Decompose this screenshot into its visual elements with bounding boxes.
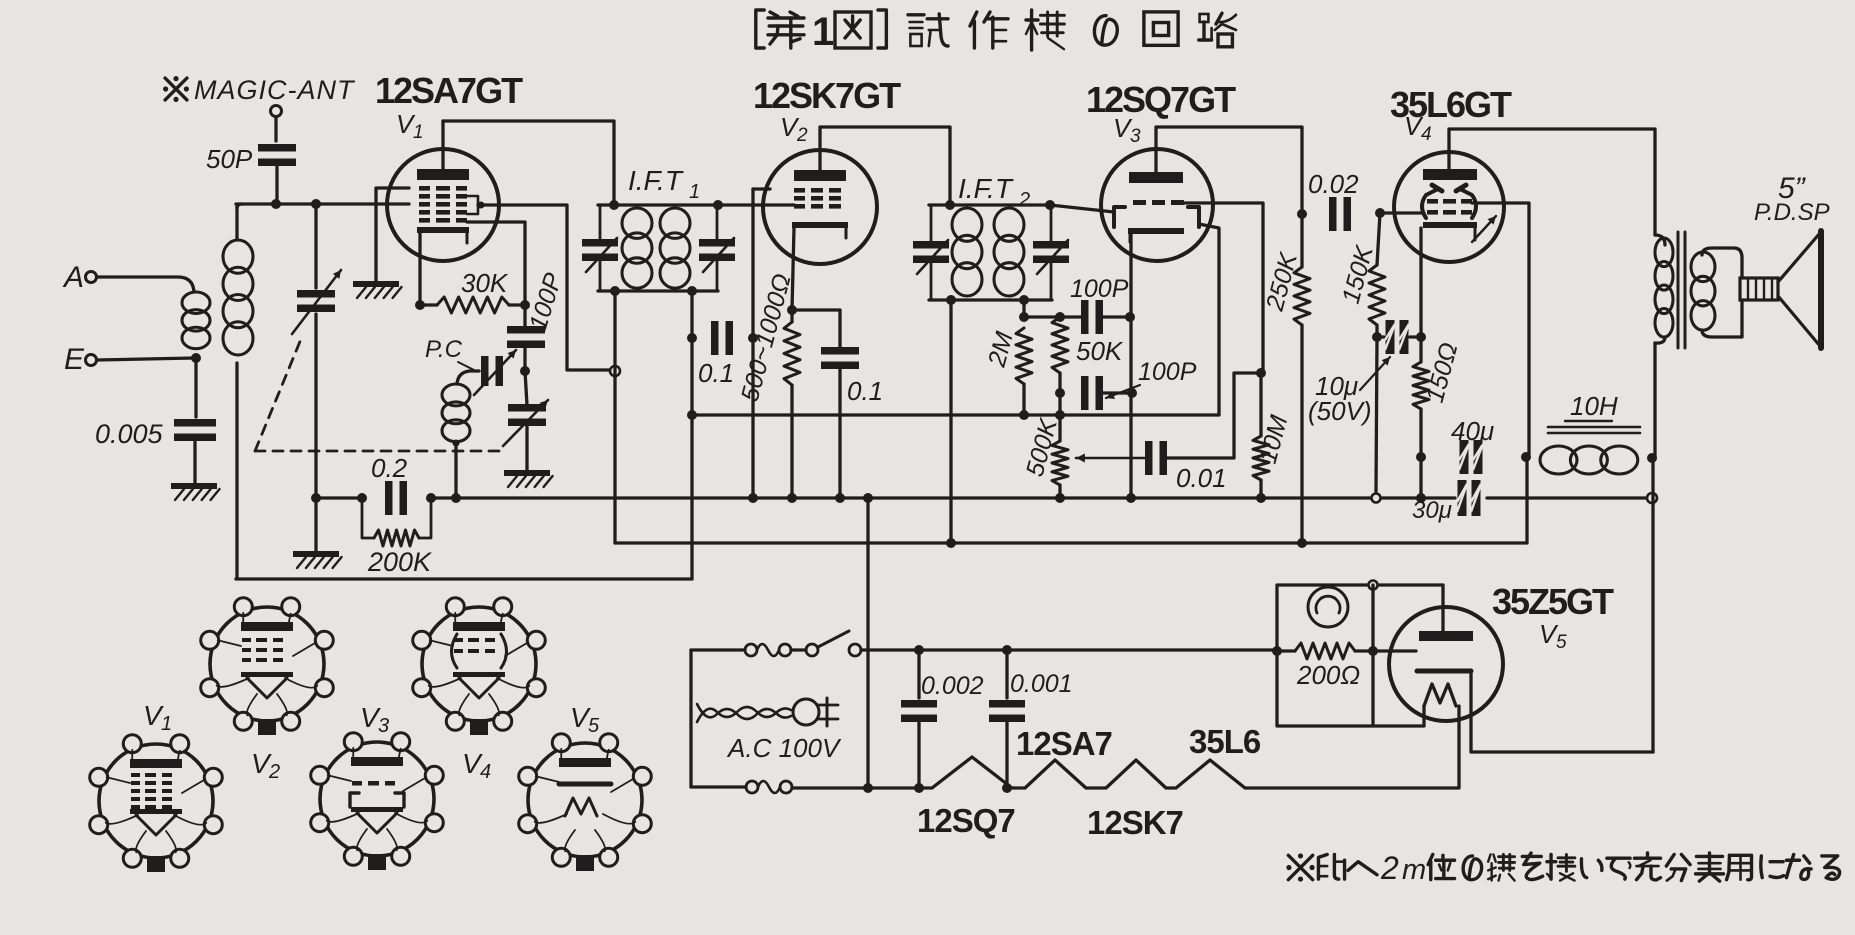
svg-text:4: 4	[480, 761, 491, 783]
node PC junction	[520, 366, 530, 376]
tube V3 cathode	[1128, 228, 1184, 242]
wire V4 screen lead	[1472, 203, 1529, 456]
node 50K top	[1055, 312, 1065, 322]
gang dashed line diagonal	[255, 339, 301, 451]
svg-text:0.02: 0.02	[1308, 169, 1359, 199]
ground V1 grid	[353, 281, 402, 298]
tube V4 35L6 envelope	[1394, 152, 1504, 262]
wire V1 plate to IFT1	[443, 121, 614, 205]
wire V1 screen to B+	[478, 205, 610, 370]
node screen bypass bus	[748, 493, 758, 503]
capacitor 40u filter	[1451, 416, 1494, 474]
svg-text:0.1: 0.1	[698, 358, 734, 388]
node IFT2 top left	[945, 200, 955, 210]
ground below tuning cap	[293, 551, 342, 568]
wire lamp box bottom	[1277, 651, 1424, 726]
node 0.001 top	[1002, 645, 1012, 655]
capacitor 100P osc grid	[507, 269, 568, 348]
resistor 500~1000ohm cathode bias	[736, 271, 800, 498]
tube V3 plate	[1129, 172, 1183, 183]
svg-text:200Ω: 200Ω	[1296, 660, 1360, 690]
label socket V5	[570, 702, 600, 737]
tube V1 cathode	[417, 227, 469, 243]
node heater line lamp left	[1272, 646, 1282, 656]
node cathode 40u	[1416, 452, 1426, 462]
socket V2 12SK7 base diagram	[201, 598, 334, 735]
wire IFT2 to V3 diode	[1050, 205, 1114, 212]
label 12SQ7 heater	[917, 802, 1015, 839]
terminal A	[62, 261, 97, 294]
svg-text:0.002: 0.002	[921, 672, 984, 700]
tube V3 grid	[1133, 200, 1184, 205]
node cathode line 100P	[1127, 388, 1137, 398]
label socket V3	[360, 702, 389, 737]
node 0.2 right	[426, 493, 436, 503]
antenna coil primary	[182, 292, 210, 349]
node cathode-30K	[415, 300, 425, 310]
node osc coil bus	[451, 493, 461, 503]
node chassis AC bus	[863, 493, 873, 503]
wire IFT1 bottom	[598, 289, 718, 292]
node 0.1 AVC right	[748, 333, 758, 343]
wire V3 cathode to bus	[1129, 317, 1132, 498]
svg-text:10H: 10H	[1570, 391, 1618, 421]
AC box left side	[689, 650, 692, 787]
node triode grid junction	[1256, 368, 1266, 378]
svg-text:40μ: 40μ	[1451, 416, 1494, 446]
resistor 200K	[362, 498, 432, 577]
wire V3 plate lead	[1156, 127, 1302, 214]
svg-text:12SQ7GT: 12SQ7GT	[1086, 79, 1236, 120]
wire V5 cathode to raw B+	[1471, 671, 1653, 752]
wire 0.01 to grid node	[1162, 373, 1263, 458]
svg-text:35Z5GT: 35Z5GT	[1492, 581, 1614, 622]
node cathode bus	[1416, 493, 1426, 503]
gang dashed line horizontal	[255, 450, 507, 453]
svg-text:30K: 30K	[461, 268, 509, 298]
tube V1 plate	[417, 169, 469, 180]
label 12SK7 heater	[1087, 804, 1183, 841]
svg-text:12SQ7: 12SQ7	[917, 802, 1015, 839]
wire IFT1 primary to B+ bus	[613, 291, 616, 543]
svg-text:0.2: 0.2	[371, 453, 408, 483]
wire coil to 0.005	[194, 358, 197, 417]
svg-text:P.C: P.C	[425, 336, 463, 363]
wire V4 plate lead	[1449, 129, 1655, 235]
output transformer core	[1678, 232, 1685, 348]
ground below 0.005	[171, 483, 220, 500]
resistor 10M grid leak	[1253, 373, 1293, 498]
svg-text:E: E	[64, 343, 85, 376]
node 0.2 left	[357, 493, 367, 503]
AC plug	[793, 698, 838, 726]
wire heater tap	[1373, 649, 1416, 652]
output transformer secondary	[1691, 248, 1742, 337]
node 50K bottom	[1055, 388, 1065, 398]
capacitor 0.1 cathode bypass	[821, 347, 883, 406]
node V3 cathode 100P	[1125, 312, 1135, 322]
label socket V2	[251, 748, 280, 783]
node 2M bottom AVC	[1019, 410, 1029, 420]
tube V4 plate	[1423, 169, 1477, 180]
node 0.02 left	[1297, 209, 1307, 219]
wire node to 100P	[523, 305, 526, 327]
wire lamp box right	[1371, 585, 1374, 726]
svg-text:50P: 50P	[206, 144, 253, 174]
node 40u right B+	[1521, 452, 1531, 462]
capacitor 10u cathode bypass	[1308, 320, 1421, 426]
wire grid to V4	[1380, 211, 1424, 214]
speaker voice coil	[1740, 278, 1778, 300]
tube V2 grids	[794, 188, 841, 209]
wire V2 plate lead	[820, 127, 950, 205]
variable capacitor tuning C1	[292, 270, 341, 334]
label 35L6 heater	[1189, 723, 1261, 760]
svg-text:1: 1	[812, 10, 834, 54]
node IFT1 bottom left	[610, 286, 620, 296]
label P.D.SP	[1754, 199, 1830, 226]
node IFT2 bottom right	[1019, 295, 1029, 305]
output transformer primary	[1655, 235, 1673, 343]
capacitor P.C padder	[425, 336, 516, 395]
volume control 500K	[1021, 393, 1068, 498]
tube V3 12SQ7 envelope	[1101, 149, 1213, 261]
wire AVC filter link	[1024, 315, 1086, 318]
antenna coil secondary	[223, 206, 253, 578]
resistor 30K	[420, 268, 525, 313]
label V1	[396, 109, 424, 143]
switch	[791, 631, 861, 656]
crossover right end of bus	[1647, 493, 1657, 503]
label 35L6GT	[1390, 84, 1512, 125]
heater string line	[792, 706, 1459, 788]
wire IFT2 primary to B+	[949, 300, 952, 543]
svg-text:12SA7: 12SA7	[1016, 725, 1112, 762]
wire V5 plate lead	[1441, 585, 1444, 631]
wire 100P to PC node	[523, 348, 526, 371]
svg-text:A: A	[62, 261, 84, 294]
svg-text:12SK7: 12SK7	[1087, 804, 1183, 841]
capacitor 0.001 line	[989, 650, 1073, 788]
resistor 50K	[1052, 317, 1124, 393]
wire bus right of 30u	[1487, 496, 1646, 499]
trimmer capacitor IFT1 secondary	[699, 205, 735, 291]
wire chassis bus main	[431, 496, 1455, 499]
socket V4 35L6 base diagram	[413, 598, 546, 735]
IFT2 primary winding	[952, 208, 982, 296]
capacitor 0.002 line	[901, 650, 984, 788]
fuse AC bottom	[691, 781, 792, 793]
svg-text:1: 1	[413, 122, 424, 143]
svg-text:100P: 100P	[1070, 275, 1129, 303]
svg-text:50K: 50K	[1076, 336, 1124, 366]
label 35Z5GT	[1492, 581, 1614, 622]
wire IFT1 to V2 grid	[718, 203, 794, 206]
fuse AC top	[691, 644, 791, 656]
node 50P junction	[271, 199, 281, 209]
tube V4 beam plates	[1422, 185, 1476, 218]
wire V3 grid lead	[1184, 203, 1263, 373]
label I.F.T1	[628, 165, 700, 203]
node 250K B+	[1297, 538, 1307, 548]
svg-text:3: 3	[378, 715, 389, 737]
resistor 250K plate load	[1260, 214, 1310, 543]
wire IFT1 top	[598, 203, 718, 206]
node 0.002 bottom	[914, 783, 924, 793]
IFT1 primary winding	[622, 208, 652, 288]
svg-text:2: 2	[1380, 850, 1399, 886]
trimmer capacitor IFT1 primary	[582, 205, 618, 291]
note ※印へ2m位の線を接いで充分実用になる	[1286, 850, 1839, 886]
trimmer capacitor IFT2 secondary	[1033, 205, 1069, 300]
tube V2 12SK7 envelope	[763, 150, 877, 264]
svg-text:2: 2	[1018, 189, 1030, 211]
label ※MAGIC-ANT	[163, 75, 356, 105]
node 10M bus	[1256, 493, 1266, 503]
node volume bus	[1055, 493, 1065, 503]
crossover screen at IFT1 primary	[610, 366, 620, 376]
svg-text:MAGIC-ANT: MAGIC-ANT	[194, 75, 356, 105]
label I.F.T2	[958, 173, 1030, 211]
wire IFT2 bottom	[929, 298, 1052, 301]
tube V5 cathode	[1417, 669, 1471, 674]
node 0.1 bypass bus	[835, 493, 845, 503]
svg-text:35L6: 35L6	[1189, 723, 1261, 760]
label socket V4	[462, 748, 491, 783]
tube V5 plate	[1419, 631, 1473, 641]
label A.C 100V	[726, 733, 842, 763]
svg-text:200K: 200K	[367, 547, 432, 577]
node grid line tuning cap	[311, 199, 321, 209]
node IFT2 sec to 2M	[1019, 312, 1029, 322]
crossover lamp box	[1369, 581, 1378, 590]
wire V1 g3 lead	[467, 222, 525, 305]
node 200ohm right	[1368, 646, 1378, 656]
resistor 200ohm	[1277, 643, 1373, 690]
capacitor 0.01	[1145, 441, 1227, 493]
capacitor 100P IF filter	[1070, 275, 1129, 334]
svg-text:3: 3	[1130, 126, 1141, 147]
node AC bottom junction	[863, 783, 873, 793]
capacitor 0.1 AVC	[698, 321, 734, 388]
label V3	[1113, 113, 1141, 147]
capacitor 100P detector	[1081, 358, 1197, 410]
label 5 inch	[1778, 172, 1807, 205]
wire PC to osc coil	[457, 371, 479, 384]
socket V1 12SA7 base diagram	[90, 735, 223, 872]
svg-text:P.D.SP: P.D.SP	[1754, 199, 1830, 226]
node osc coil bottom	[453, 440, 460, 447]
socket V3 12SQ7 base diagram	[311, 733, 444, 870]
node AVC volume top	[1055, 410, 1065, 420]
label socket V1	[143, 700, 172, 735]
svg-text:2: 2	[268, 761, 280, 783]
wire V4 cathode lead	[1419, 228, 1422, 337]
svg-text:1: 1	[689, 181, 700, 203]
wire bus to ground stub	[314, 498, 317, 551]
svg-text:(50V): (50V)	[1308, 396, 1372, 426]
node tuning cap bus	[311, 493, 321, 503]
node 0.02 right	[1375, 208, 1385, 218]
capacitor 50P	[206, 144, 296, 204]
wire chassis bus left	[316, 496, 362, 499]
label 12SA7 heater	[1016, 725, 1112, 762]
node AVC IFT1	[687, 410, 697, 420]
choke 10H	[1540, 391, 1640, 474]
resistor 150K grid	[1337, 213, 1385, 337]
tube V3 diode plate left	[1114, 207, 1125, 227]
node 150K bottom	[1372, 332, 1382, 342]
node choke right	[1647, 453, 1657, 463]
pilot lamp box	[1277, 585, 1443, 651]
svg-text:5: 5	[588, 715, 600, 737]
svg-text:0.001: 0.001	[1010, 670, 1073, 698]
node IFT1 top right	[713, 200, 723, 210]
wire screen bypass vertical	[753, 189, 770, 498]
node V3 cathode bus	[1126, 493, 1136, 503]
label 12SA7GT	[375, 70, 523, 111]
capacitor 0.02	[1308, 169, 1359, 231]
svg-text:12SK7GT: 12SK7GT	[753, 75, 901, 116]
speaker horn	[1778, 231, 1821, 348]
tube V2 plate	[794, 170, 846, 181]
svg-text:I.F.T: I.F.T	[628, 165, 684, 196]
node IFT2 primary B+	[946, 538, 956, 548]
wire AVC line	[692, 413, 1219, 416]
wire E to coil	[97, 358, 194, 360]
svg-text:5: 5	[1556, 632, 1567, 653]
svg-text:m: m	[1402, 854, 1426, 886]
tube V1 12SA7 envelope	[387, 149, 499, 261]
tube V3 diode plate right	[1188, 207, 1199, 227]
node 0.002 top	[914, 645, 924, 655]
title 〔第1図〕 試作機の回路	[756, 10, 1236, 54]
wire antenna secondary top corner	[237, 204, 242, 208]
wire OPT bottom to raw B+	[1653, 343, 1656, 458]
wire tuning cap to bus	[314, 314, 317, 498]
IFT2 secondary winding	[994, 208, 1024, 296]
socket V5 35Z5 base diagram	[519, 734, 652, 871]
wire 150K to bus	[1376, 337, 1377, 492]
svg-text:100P: 100P	[1138, 358, 1197, 386]
node cathode 10u	[1416, 332, 1426, 342]
wire IFT1 secondary to AVC	[690, 291, 693, 579]
crossover 150K at bus	[1372, 494, 1381, 503]
AC plug cord	[697, 704, 791, 722]
svg-text:0.1: 0.1	[847, 376, 883, 406]
wire cathode to bus	[1419, 457, 1422, 498]
wire raw B+ down	[1651, 458, 1654, 752]
node IFT1 bottom right	[687, 286, 697, 296]
wiper arrow volume	[1076, 453, 1148, 462]
wire V2 cathode lead	[792, 228, 794, 310]
wire IFT2 sec bottom	[1022, 300, 1025, 317]
node bias resistor bus	[787, 493, 797, 503]
antenna terminal MAGIC-ANT	[271, 106, 282, 142]
wire 100P to cathode node	[1098, 315, 1130, 318]
svg-text:1: 1	[161, 713, 172, 735]
node 0.001 bottom	[1002, 783, 1012, 793]
svg-text:4: 4	[1421, 124, 1432, 145]
wire 0.005 to ground	[193, 442, 196, 483]
node antenna coil bottom	[191, 353, 201, 363]
variable capacitor oscillator	[503, 371, 548, 446]
node IFT1 top left	[609, 200, 619, 210]
oscillator coil	[442, 384, 470, 442]
tube V1 screen bracket	[467, 196, 485, 214]
trimmer capacitor IFT2 primary	[913, 205, 949, 300]
tube V4 cathode	[1423, 222, 1477, 240]
tube V4 grids	[1427, 199, 1472, 215]
svg-text:30μ: 30μ	[1412, 497, 1452, 524]
wire B- return line	[236, 577, 692, 580]
wire 0.1 bypass to bus	[838, 369, 841, 498]
pilot lamp	[1308, 587, 1348, 627]
svg-text:A.C 100V: A.C 100V	[726, 733, 842, 763]
svg-text:12SA7GT: 12SA7GT	[375, 70, 523, 111]
node V2 cathode junction	[787, 305, 797, 315]
wire B+ bus	[615, 457, 1527, 543]
wire V1 grid1 to ground	[376, 188, 409, 281]
label V4	[1404, 111, 1432, 145]
tube V5 35Z5 envelope	[1389, 607, 1503, 721]
resistor 150ohm cathode	[1413, 337, 1464, 457]
terminal E	[64, 343, 97, 376]
label 12SQ7GT	[1086, 79, 1236, 120]
svg-text:0.01: 0.01	[1176, 463, 1227, 493]
svg-text:I.F.T: I.F.T	[958, 173, 1014, 204]
tube V4 beam arrow	[1472, 216, 1496, 242]
label V5	[1539, 619, 1567, 653]
wire V1 plate lead	[441, 121, 444, 169]
capacitor 0.005	[95, 419, 216, 449]
IFT1 secondary winding	[660, 208, 690, 288]
wire osc coil to bus	[454, 443, 457, 498]
wire V3 cathode lead	[1129, 234, 1132, 317]
capacitor 0.2	[371, 453, 408, 515]
svg-text:0.005: 0.005	[95, 419, 164, 449]
wire osc cap to ground	[525, 427, 528, 470]
wire switch to heater line	[861, 648, 1277, 651]
wire A to coil	[97, 277, 194, 292]
wire chassis to AC bottom	[866, 498, 869, 788]
tube V1 grids	[419, 186, 467, 223]
wire 100P det to cathode line	[1098, 391, 1132, 394]
tube V5 heater	[1424, 684, 1456, 706]
resistor 2M	[982, 328, 1032, 415]
wire V1 cathode lead	[418, 233, 421, 305]
svg-text:2: 2	[796, 125, 808, 146]
node IFT2 bottom left	[946, 295, 956, 305]
wire cathode to 0.1 bypass	[792, 310, 840, 347]
capacitor 30u filter	[1412, 480, 1481, 524]
wire grid line to tuning cap	[314, 204, 317, 288]
node 30K right	[520, 300, 530, 310]
wire IFT2 top	[929, 203, 1052, 206]
wire grid top line	[236, 202, 409, 205]
tube V2 cathode	[792, 222, 848, 238]
node 0.1 AVC left	[687, 333, 697, 343]
ground below osc cap	[504, 470, 553, 487]
label 12SK7GT	[753, 75, 901, 116]
wire V3 diode2 to AVC	[1199, 224, 1219, 415]
label V2	[780, 112, 808, 146]
node IFT2 top right	[1045, 200, 1055, 210]
